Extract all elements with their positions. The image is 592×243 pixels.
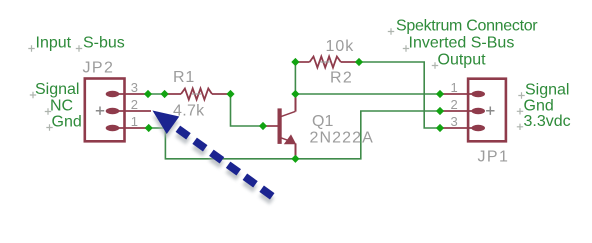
svg-text:R1: R1 xyxy=(173,69,195,86)
svg-text:JP1: JP1 xyxy=(478,149,510,166)
svg-text:2: 2 xyxy=(451,97,458,112)
svg-text:Gnd: Gnd xyxy=(52,114,82,131)
svg-text:Spektrum Connector: Spektrum Connector xyxy=(396,18,538,35)
svg-text:JP2: JP2 xyxy=(83,60,115,77)
svg-text:3.3vdc: 3.3vdc xyxy=(524,113,571,130)
svg-text:1: 1 xyxy=(131,114,138,129)
svg-text:S-bus: S-bus xyxy=(83,35,125,52)
svg-text:3: 3 xyxy=(451,114,458,129)
svg-text:2: 2 xyxy=(131,97,138,112)
svg-text:10k: 10k xyxy=(326,38,355,55)
svg-text:1: 1 xyxy=(451,80,458,95)
svg-text:Output: Output xyxy=(438,52,487,69)
svg-text:R2: R2 xyxy=(330,69,353,86)
svg-text:Inverted S-Bus: Inverted S-Bus xyxy=(409,35,515,52)
svg-text:NC: NC xyxy=(50,98,73,115)
svg-text:Signal: Signal xyxy=(35,81,79,98)
svg-text:2N222A: 2N222A xyxy=(310,130,374,147)
svg-text:Q1: Q1 xyxy=(312,113,333,130)
svg-text:3: 3 xyxy=(131,80,138,95)
svg-text:Gnd: Gnd xyxy=(524,97,554,114)
svg-text:Signal: Signal xyxy=(525,82,569,99)
svg-text:Input: Input xyxy=(36,35,72,52)
